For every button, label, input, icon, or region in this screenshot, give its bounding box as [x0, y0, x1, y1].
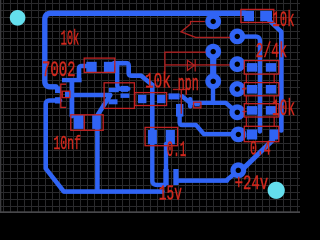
- pad R2c: [229, 56, 245, 72]
- pad row2 left: [247, 85, 257, 94]
- pad L3: [205, 73, 221, 89]
- svg-text:10k: 10k: [272, 96, 295, 122]
- wire cluster center vertical: [164, 144, 168, 178]
- pad L2: [205, 44, 221, 60]
- wire diagonal row4 to +24v pad: [241, 140, 273, 171]
- wire resistor R1 left pad to cap: [79, 66, 87, 79]
- pad row3 right: [266, 106, 276, 115]
- wire lower-left branch to bottom edge: [46, 101, 163, 192]
- wire net to pad L2: [165, 52, 206, 74]
- svg-text:0.1: 0.1: [167, 139, 186, 163]
- capacitor 0.1 outline: [145, 127, 178, 145]
- svg-text:10k: 10k: [61, 27, 80, 51]
- cyan drill marker bottom-right: [268, 182, 285, 199]
- pad row4 right: [269, 130, 279, 140]
- wire mid horizontal with diagonal to cap: [68, 95, 110, 116]
- through-hole pads (donuts): [205, 14, 246, 179]
- pad capacitor 10nf right: [92, 115, 101, 128]
- pad row1 left: [247, 63, 257, 72]
- wire cluster to +24v pad horizontal: [178, 174, 235, 181]
- pad 0.1 left: [148, 130, 157, 144]
- pad +24v: [230, 162, 246, 178]
- pad resistor R2 (10k mid) left: [138, 95, 146, 103]
- pad R3c: [229, 81, 245, 97]
- wire P_b chain to pad 134: [180, 106, 231, 134]
- wire board outline top + left: [45, 13, 245, 87]
- svg-text:10k: 10k: [272, 9, 294, 34]
- pad Q1 lower-left: [55, 97, 61, 103]
- wire resistor R1 right pad south path: [114, 63, 152, 131]
- svg-text:2/4k: 2/4k: [256, 40, 288, 64]
- pad row4 left: [247, 130, 257, 140]
- bottom edge line: [0, 211, 300, 213]
- wires: blue bottom-layer copper: [45, 13, 281, 191]
- pad L1: [205, 14, 221, 30]
- resistor R2 outline (10k mid): [135, 93, 167, 106]
- pad resistor R2 right: [157, 95, 165, 103]
- wire continues below 0.1 pad to bottom cluster: [152, 144, 164, 185]
- wire y102 horizontal to pad: [182, 96, 234, 110]
- resistor row3 outline: [244, 104, 278, 117]
- wire net pad A zigzag to pad B: [181, 22, 230, 38]
- pad Q1 upper-left: [55, 86, 61, 93]
- wire row link right b: [273, 96, 275, 103]
- outline mini pads: [194, 102, 201, 108]
- pad Q2 small a: [109, 88, 119, 92]
- pad row3 left: [247, 106, 257, 115]
- capacitor 10nf outline: [71, 115, 103, 131]
- svg-text:10k: 10k: [145, 70, 171, 95]
- pad Q2 small d: [121, 93, 130, 98]
- resistor top-right outline: [241, 9, 274, 22]
- pad R4c: [229, 104, 245, 120]
- pad cluster tall right: [173, 169, 178, 185]
- svg-text:15v: 15v: [159, 184, 182, 207]
- red component outlines: [61, 9, 279, 145]
- pad P_a: [169, 93, 180, 99]
- wire row link left b: [245, 96, 247, 103]
- transistor Q1 outline: [61, 84, 66, 107]
- wire row link left c: [245, 117, 247, 126]
- resistor R1 outline: [84, 58, 115, 72]
- pad cluster tall left: [163, 169, 168, 185]
- wire row link right c: [273, 117, 275, 126]
- svg-text:10nf: 10nf: [53, 133, 81, 155]
- pad R5c: [231, 126, 247, 142]
- transistor Q2 outline: [104, 83, 134, 109]
- wire top-right resistor diagonal + right vertical: [269, 21, 281, 131]
- pad P_b tall: [176, 104, 183, 117]
- pad mini near 199,104: [195, 103, 200, 107]
- pad top-right resistor right: [260, 11, 272, 21]
- wire bar between left column pads: [210, 52, 216, 82]
- wire pad B elbow down: [237, 37, 260, 132]
- pad 0.1 right: [166, 130, 175, 144]
- wire capacitor drop to bottom: [95, 128, 100, 191]
- SMD pads blue rectangles: [55, 11, 279, 185]
- red top-layer nets: [165, 22, 274, 127]
- wire link pad R3c to row2: [242, 88, 247, 90]
- pad Q1 middle: [65, 91, 70, 97]
- resistor row2 outline: [244, 83, 278, 96]
- pad row2 right: [266, 85, 276, 94]
- cyan drill marker top-left: [10, 10, 26, 26]
- pad stub near R1: [62, 78, 82, 82]
- svg-text:+24v: +24v: [235, 174, 269, 196]
- wire link pad R4c to row3: [243, 111, 247, 113]
- svg-text:npn: npn: [178, 72, 199, 97]
- resistor row4 outline: [244, 126, 278, 141]
- wire C-shape stub: [117, 65, 128, 89]
- wire end cap of y102: [188, 99, 193, 106]
- pad Q2 small c: [109, 99, 118, 104]
- pad row1 right: [266, 63, 276, 72]
- pad top-right resistor left: [244, 11, 254, 21]
- wire row link right a: [273, 74, 275, 82]
- pad R1c: [229, 29, 245, 45]
- pad Q2 small b: [121, 86, 129, 92]
- resistor row1 outline: [244, 61, 278, 75]
- pad resistor R1 right: [104, 62, 114, 72]
- wire pad stem x213: [211, 89, 215, 103]
- pad resistor R1 left: [86, 62, 96, 72]
- wire diode net y65: [165, 64, 230, 66]
- svg-text:7002: 7002: [42, 58, 76, 83]
- left edge line: [0, 0, 1, 213]
- wire silk over P_a: [173, 89, 188, 113]
- diode D1 symbol: [187, 59, 195, 71]
- pad capacitor 10nf left: [74, 115, 84, 128]
- wire row link left a: [245, 74, 247, 82]
- svg-text:0.4: 0.4: [250, 137, 271, 160]
- red text labels: [42, 9, 295, 207]
